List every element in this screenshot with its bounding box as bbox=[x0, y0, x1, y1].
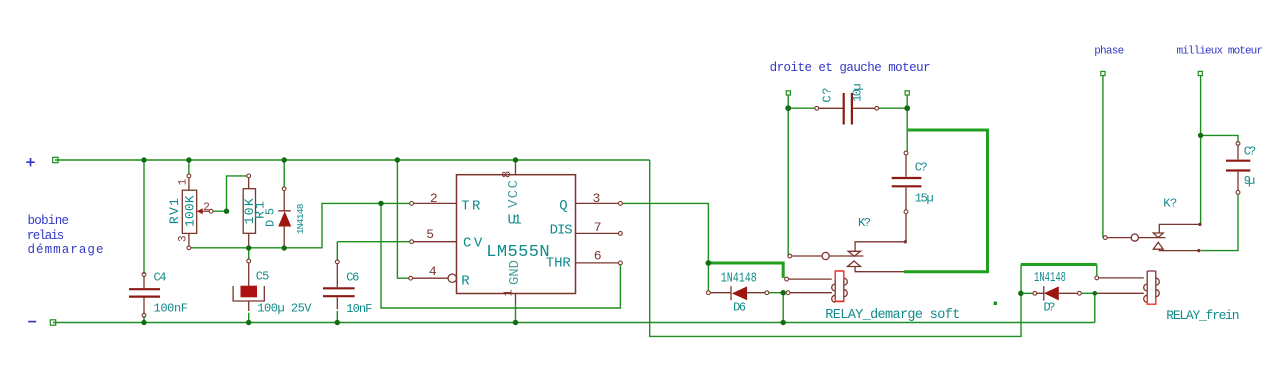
svg-text:100µ 25V: 100µ 25V bbox=[257, 301, 312, 315]
svg-text:C?: C? bbox=[1244, 145, 1257, 159]
svg-text:8: 8 bbox=[500, 171, 514, 178]
svg-text:K?: K? bbox=[858, 216, 871, 230]
svg-text:RELAY_frein: RELAY_frein bbox=[1166, 308, 1239, 323]
svg-text:2: 2 bbox=[203, 202, 210, 214]
svg-text:D?: D? bbox=[1044, 301, 1056, 315]
svg-text:10nF: 10nF bbox=[346, 302, 372, 316]
svg-text:bobine: bobine bbox=[28, 214, 70, 228]
svg-text:U1: U1 bbox=[508, 212, 522, 228]
svg-text:3: 3 bbox=[177, 235, 189, 242]
svg-text:7: 7 bbox=[594, 220, 602, 235]
svg-text:1: 1 bbox=[177, 178, 189, 185]
svg-text:1N4148: 1N4148 bbox=[295, 203, 306, 234]
svg-text:1N4148: 1N4148 bbox=[721, 271, 757, 286]
svg-text:GND: GND bbox=[507, 260, 523, 285]
svg-text:1: 1 bbox=[502, 289, 516, 296]
svg-text:4: 4 bbox=[429, 264, 437, 279]
svg-text:THR: THR bbox=[546, 256, 572, 272]
svg-text:CV: CV bbox=[463, 235, 483, 251]
svg-text:9µ: 9µ bbox=[1244, 174, 1256, 188]
svg-text:C?: C? bbox=[915, 160, 928, 174]
svg-text:C6: C6 bbox=[346, 270, 359, 284]
svg-text:15µ: 15µ bbox=[915, 191, 934, 205]
svg-text:D6: D6 bbox=[733, 301, 746, 315]
svg-text:100K: 100K bbox=[183, 195, 198, 227]
svg-text:C5: C5 bbox=[256, 269, 269, 283]
svg-text:5: 5 bbox=[426, 227, 434, 242]
svg-text:C4: C4 bbox=[154, 271, 167, 285]
svg-text:droite et gauche moteur: droite et gauche moteur bbox=[770, 61, 931, 75]
svg-text:VCC: VCC bbox=[506, 180, 522, 208]
svg-text:Q: Q bbox=[559, 198, 567, 214]
svg-text:C?: C? bbox=[821, 88, 835, 103]
svg-text:R: R bbox=[461, 274, 470, 290]
svg-text:6: 6 bbox=[594, 248, 602, 263]
svg-text:LM555N: LM555N bbox=[486, 243, 549, 262]
svg-text:TR: TR bbox=[461, 199, 481, 215]
svg-text:phase: phase bbox=[1094, 46, 1124, 58]
svg-text:100nF: 100nF bbox=[154, 302, 189, 316]
svg-text:démmarage: démmarage bbox=[28, 243, 104, 257]
svg-text:RELAY_demarge soft: RELAY_demarge soft bbox=[825, 308, 960, 323]
svg-text:relais: relais bbox=[27, 229, 65, 243]
svg-text:millieux moteur: millieux moteur bbox=[1177, 46, 1264, 58]
svg-text:K?: K? bbox=[1163, 197, 1177, 211]
svg-text:RV1: RV1 bbox=[167, 198, 182, 224]
svg-text:2: 2 bbox=[430, 191, 438, 206]
svg-text:3: 3 bbox=[593, 191, 601, 206]
svg-text:DIS: DIS bbox=[550, 223, 573, 239]
svg-text:1N4148: 1N4148 bbox=[1034, 271, 1066, 286]
svg-text:10µ: 10µ bbox=[851, 83, 865, 102]
